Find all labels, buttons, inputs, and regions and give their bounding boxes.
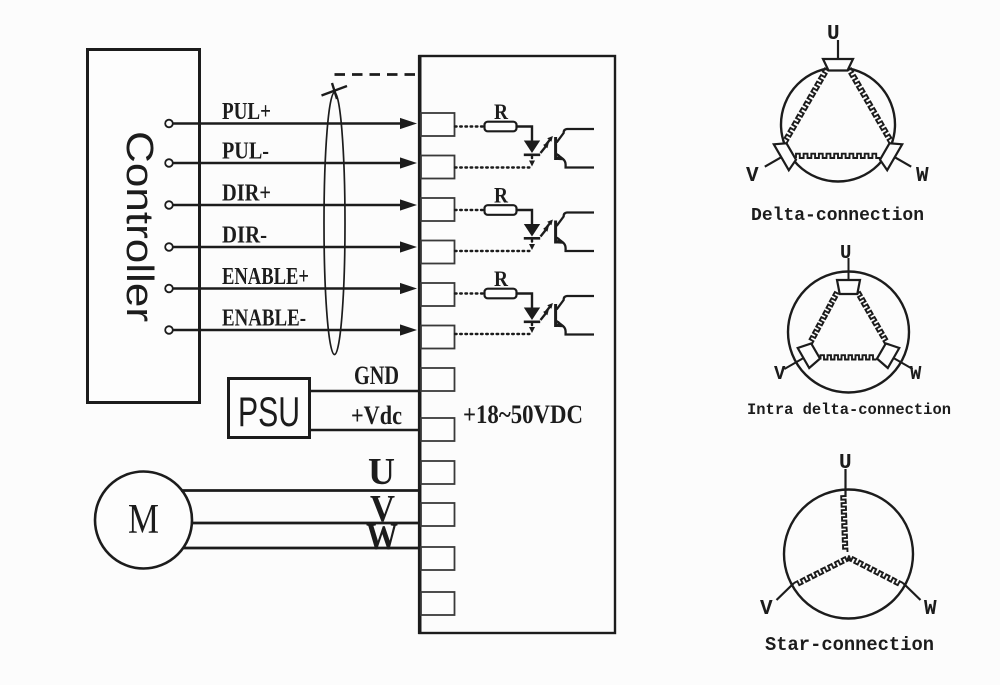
- terminal pad U: [421, 461, 455, 484]
- PSU box: [229, 379, 310, 438]
- svg-text:GND: GND: [354, 361, 399, 390]
- svg-text:W: W: [366, 516, 398, 558]
- svg-text:PUL-: PUL-: [222, 139, 269, 165]
- label +Vdc: [351, 401, 402, 430]
- intra lead U: [848, 258, 850, 280]
- label PUL+: [222, 99, 271, 125]
- terminal pad ENA+: [421, 283, 455, 306]
- wire W: [183, 547, 419, 550]
- delta terminal V: [774, 143, 796, 170]
- dotted wire pad to R3: [455, 292, 483, 294]
- dotted wire LED cathode down 1: [529, 157, 535, 167]
- star lead U: [844, 469, 846, 497]
- intra terminal W: [877, 343, 899, 368]
- intra label U: [840, 242, 851, 264]
- label ENABLE+: [222, 264, 309, 290]
- svg-text:W: W: [916, 165, 929, 188]
- label Intra delta-connection: [747, 401, 951, 419]
- shielded cable ellipse: [324, 93, 345, 355]
- svg-text:V: V: [760, 598, 773, 621]
- label ENABLE-: [222, 306, 306, 332]
- terminal pad W: [421, 547, 455, 570]
- optocoupler light arrows 3: [541, 303, 553, 320]
- delta lead U: [837, 40, 839, 59]
- delta terminal W: [880, 143, 902, 170]
- shield dashed wire to driver: [335, 73, 420, 76]
- svg-text:W: W: [924, 598, 937, 621]
- phototransistor 3: [556, 296, 594, 335]
- wire ENABLE-: [173, 324, 417, 335]
- label GND: [354, 361, 399, 390]
- dotted wire pad to R1: [455, 125, 483, 127]
- delta terminal U: [823, 59, 853, 71]
- LED of optocoupler 2: [524, 224, 540, 238]
- star winding U: [841, 496, 847, 552]
- svg-text:U: U: [839, 452, 852, 475]
- svg-text:+18~50VDC: +18~50VDC: [463, 400, 583, 429]
- label R3: [494, 266, 509, 291]
- terminal pad PUL+: [421, 113, 455, 136]
- resistor R3: [485, 289, 517, 299]
- delta winding V-W: [796, 154, 880, 158]
- wire U: [181, 489, 419, 492]
- terminal pad V: [421, 503, 455, 526]
- intra lead V: [784, 358, 803, 369]
- LED of optocoupler 1: [524, 141, 540, 155]
- wire V: [192, 522, 419, 525]
- delta motor circle: [781, 68, 895, 182]
- resistor R2: [485, 205, 517, 215]
- terminal pad NC: [421, 592, 455, 615]
- svg-text:Intra delta-connection: Intra delta-connection: [747, 401, 951, 419]
- intra winding U-W: [856, 292, 887, 344]
- terminal pad ENA-: [421, 326, 455, 349]
- label PUL-: [222, 139, 269, 165]
- dotted return wire 2: [455, 250, 532, 252]
- label DIR+: [222, 181, 271, 207]
- wire GND: [310, 390, 419, 392]
- svg-text:DIR-: DIR-: [222, 223, 267, 249]
- shield connection cross: [322, 83, 348, 99]
- driver box: [420, 55, 616, 634]
- delta label W: [916, 165, 929, 188]
- svg-text:Controller: Controller: [118, 131, 160, 322]
- wire PUL-: [173, 157, 417, 168]
- dotted return wire 3: [455, 333, 532, 335]
- svg-text:PSU: PSU: [238, 388, 300, 435]
- optocoupler light arrows 1: [541, 136, 553, 153]
- svg-text:DIR+: DIR+: [222, 181, 271, 207]
- svg-text:V: V: [746, 165, 759, 188]
- controller terminal PUL+: [165, 120, 173, 128]
- intra terminal V: [798, 343, 820, 368]
- label Delta-connection: [751, 206, 924, 226]
- delta lead V: [765, 157, 782, 167]
- wire R1 to LED: [517, 127, 533, 141]
- controller terminal PUL-: [165, 159, 173, 167]
- star lead W: [903, 583, 921, 600]
- controller terminal DIR-: [165, 243, 173, 251]
- label Star-connection: [765, 634, 934, 656]
- svg-text:U: U: [368, 451, 395, 493]
- label R1: [494, 99, 509, 124]
- svg-text:+Vdc: +Vdc: [351, 401, 402, 430]
- terminal pad DIR+: [421, 198, 455, 221]
- star winding V: [794, 556, 850, 586]
- svg-text:Delta-connection: Delta-connection: [751, 206, 924, 226]
- delta label V: [746, 165, 759, 188]
- star label W: [924, 598, 937, 621]
- controller terminal ENABLE+: [165, 285, 173, 293]
- phototransistor 2: [556, 213, 594, 252]
- delta label U: [827, 23, 840, 46]
- svg-text:R: R: [494, 183, 509, 208]
- label +18~50VDC: [463, 400, 583, 429]
- svg-text:V: V: [774, 363, 786, 385]
- label R2: [494, 183, 509, 208]
- star winding W: [848, 556, 904, 586]
- intra terminal U: [837, 280, 860, 294]
- intra lead W: [894, 358, 913, 369]
- wire ENABLE+: [173, 283, 417, 294]
- dotted wire pad to R2: [455, 209, 483, 211]
- wire R3 to LED: [517, 294, 533, 308]
- controller terminal ENABLE-: [165, 326, 173, 334]
- delta winding U-W: [848, 68, 892, 143]
- phototransistor 1: [556, 129, 594, 168]
- label U: [368, 451, 395, 493]
- terminal pad +Vdc: [421, 418, 455, 441]
- svg-text:PUL+: PUL+: [222, 99, 271, 125]
- wire +Vdc: [310, 429, 419, 431]
- svg-text:ENABLE-: ENABLE-: [222, 306, 306, 332]
- label W: [366, 516, 398, 558]
- star label V: [760, 598, 773, 621]
- svg-text:R: R: [494, 266, 509, 291]
- label V: [370, 488, 395, 530]
- wire DIR+: [173, 199, 417, 210]
- controller terminal DIR+: [165, 201, 173, 209]
- svg-text:R: R: [494, 99, 509, 124]
- wire R2 to LED: [517, 210, 533, 224]
- svg-text:M: M: [128, 497, 159, 543]
- star motor circle: [784, 490, 913, 619]
- svg-text:Star-connection: Star-connection: [765, 634, 934, 656]
- terminal pad DIR-: [421, 241, 455, 264]
- intra label W: [910, 363, 922, 385]
- resistor R1: [485, 122, 517, 132]
- intra label V: [774, 363, 786, 385]
- svg-text:U: U: [840, 242, 851, 264]
- label DIR-: [222, 223, 267, 249]
- dotted wire LED cathode down 3: [529, 324, 535, 334]
- terminal pad GND: [421, 368, 455, 391]
- svg-text:W: W: [910, 363, 922, 385]
- dotted wire LED cathode down 2: [529, 240, 535, 250]
- star lead V: [777, 583, 795, 600]
- intra winding U-V: [810, 292, 839, 344]
- controller box: [88, 50, 200, 403]
- wire PUL+: [173, 118, 417, 129]
- star label U: [839, 452, 852, 475]
- svg-text:ENABLE+: ENABLE+: [222, 264, 309, 290]
- LED of optocoupler 3: [524, 308, 540, 322]
- motor M: [95, 472, 192, 569]
- delta winding U-V: [785, 68, 829, 143]
- intra winding V-W: [821, 355, 877, 359]
- delta lead W: [895, 157, 912, 167]
- svg-text:U: U: [827, 23, 840, 46]
- dotted return wire 1: [455, 166, 532, 168]
- terminal pad PUL-: [421, 156, 455, 179]
- wire DIR-: [173, 241, 417, 252]
- optocoupler light arrows 2: [541, 220, 553, 237]
- intra delta motor circle: [788, 272, 909, 393]
